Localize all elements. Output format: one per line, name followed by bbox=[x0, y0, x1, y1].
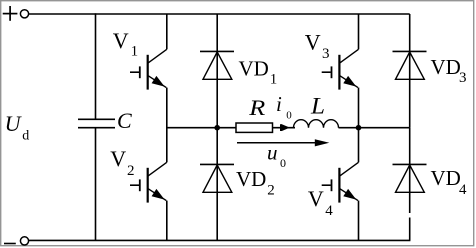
svg-text:2: 2 bbox=[267, 183, 275, 199]
capacitor C bbox=[78, 119, 115, 127]
diode VD2 bbox=[200, 128, 234, 241]
svg-text:0: 0 bbox=[280, 156, 286, 170]
svg-text:R: R bbox=[248, 95, 266, 120]
label VD4 bbox=[431, 166, 468, 198]
svg-text:VD: VD bbox=[431, 55, 461, 79]
voltage arrow u0 bbox=[237, 139, 329, 146]
minus terminal bbox=[4, 243, 16, 245]
transistor V2 bbox=[130, 128, 167, 241]
svg-text:i: i bbox=[276, 92, 282, 116]
svg-text:U: U bbox=[5, 111, 23, 136]
diode VD4 bbox=[393, 128, 427, 241]
label VD3 bbox=[431, 55, 467, 86]
wire R to L bbox=[273, 127, 296, 129]
terminal circle - bbox=[20, 237, 28, 245]
plus terminal bbox=[3, 6, 18, 21]
current arrow i0 bbox=[280, 124, 290, 131]
wire top rail bbox=[29, 13, 410, 15]
node right junction bbox=[356, 125, 362, 131]
svg-text:V: V bbox=[305, 29, 321, 54]
svg-text:VD: VD bbox=[236, 167, 266, 191]
transistor V1 bbox=[130, 14, 167, 128]
wire capacitor branch bottom bbox=[95, 128, 97, 241]
svg-text:d: d bbox=[22, 128, 29, 143]
wire mid rail left bbox=[167, 127, 237, 129]
node left junction bbox=[214, 125, 220, 131]
svg-text:u: u bbox=[267, 141, 278, 165]
label V4 bbox=[308, 186, 333, 219]
label Ud bbox=[5, 111, 30, 143]
inductor L bbox=[294, 120, 339, 128]
svg-text:V: V bbox=[110, 146, 126, 171]
label V2 bbox=[110, 146, 134, 179]
label VD1 bbox=[239, 57, 278, 88]
svg-text:VD: VD bbox=[431, 166, 461, 190]
wire capacitor branch top bbox=[95, 13, 97, 119]
label V3 bbox=[305, 29, 330, 62]
transistor V3 bbox=[322, 14, 359, 128]
svg-text:1: 1 bbox=[131, 43, 139, 59]
label V1 bbox=[113, 28, 138, 59]
label VD2 bbox=[236, 167, 275, 199]
svg-text:4: 4 bbox=[459, 182, 467, 198]
wire bottom rail bbox=[29, 239, 411, 241]
svg-text:3: 3 bbox=[459, 70, 467, 86]
svg-text:4: 4 bbox=[325, 203, 333, 219]
svg-text:V: V bbox=[113, 28, 129, 53]
wire mid rail right bbox=[339, 127, 410, 129]
svg-text:C: C bbox=[117, 108, 132, 133]
label i0 bbox=[276, 92, 292, 121]
svg-text:2: 2 bbox=[127, 163, 135, 179]
svg-text:L: L bbox=[310, 94, 325, 119]
diode VD1 bbox=[200, 14, 234, 128]
transistor V4 bbox=[322, 128, 359, 241]
terminal circle + bbox=[20, 10, 28, 18]
svg-text:3: 3 bbox=[322, 46, 330, 62]
svg-text:0: 0 bbox=[286, 109, 292, 121]
resistor R bbox=[236, 123, 273, 132]
svg-text:1: 1 bbox=[270, 72, 278, 88]
svg-text:V: V bbox=[308, 186, 324, 211]
label u0 bbox=[267, 141, 286, 170]
svg-text:VD: VD bbox=[239, 57, 269, 81]
diode VD3 bbox=[393, 14, 427, 128]
